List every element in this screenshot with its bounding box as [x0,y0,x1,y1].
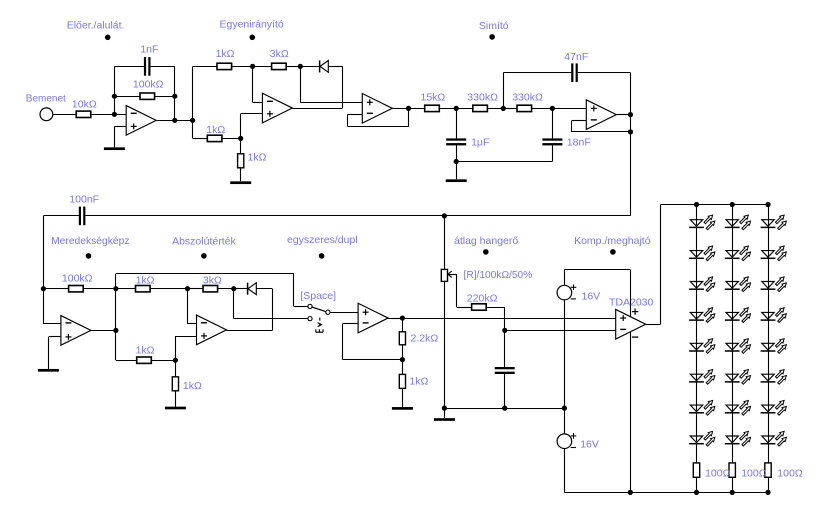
svg-text:2.2kΩ: 2.2kΩ [411,333,439,345]
svg-text:16V: 16V [580,439,599,451]
svg-text:3kΩ: 3kΩ [203,274,222,286]
svg-text:100nF: 100nF [69,193,99,205]
svg-text:47nF: 47nF [564,51,588,63]
svg-text:330kΩ: 330kΩ [467,92,498,104]
svg-text:100Ω: 100Ω [741,468,767,480]
svg-text:15kΩ: 15kΩ [421,92,446,104]
svg-text:100kΩ: 100kΩ [133,79,164,91]
svg-text:Abszolútérték: Abszolútérték [172,235,236,247]
svg-text:TDA2030: TDA2030 [609,297,654,309]
svg-text:100Ω: 100Ω [777,468,803,480]
svg-text:1kΩ: 1kΩ [136,345,155,357]
svg-text:Bemenet: Bemenet [26,94,66,105]
svg-text:1kΩ: 1kΩ [248,152,267,164]
svg-text:1μF: 1μF [471,137,489,149]
svg-text:egyszeres/dupl: egyszeres/dupl [287,234,358,246]
svg-text:1kΩ: 1kΩ [409,376,428,388]
svg-text:Egyenirányító: Egyenirányító [220,19,284,31]
svg-text:átlag hangerő: átlag hangerő [454,235,518,247]
svg-text:1nF: 1nF [140,43,158,55]
svg-text:330kΩ: 330kΩ [512,92,543,104]
svg-text:1kΩ: 1kΩ [136,274,155,286]
svg-text:1kΩ: 1kΩ [206,124,225,136]
svg-text:Előer./alulát.: Előer./alulát. [67,19,125,31]
svg-text:100kΩ: 100kΩ [62,273,93,285]
svg-text:18nF: 18nF [567,137,591,149]
svg-text:Komp./meghajtó: Komp./meghajtó [574,235,651,247]
svg-text:10kΩ: 10kΩ [72,98,97,110]
svg-text:1kΩ: 1kΩ [216,48,235,60]
svg-text:1kΩ: 1kΩ [183,380,202,392]
svg-text:3kΩ: 3kΩ [270,48,289,60]
svg-text:100Ω: 100Ω [705,468,731,480]
svg-text:Meredekségképz: Meredekségképz [51,236,129,247]
svg-text:[R]/100kΩ/50%: [R]/100kΩ/50% [464,270,533,281]
svg-text:Simító: Simító [479,20,509,32]
svg-text:[Space]: [Space] [300,290,336,302]
svg-text:220kΩ: 220kΩ [467,292,498,304]
svg-text:16V: 16V [582,290,601,302]
